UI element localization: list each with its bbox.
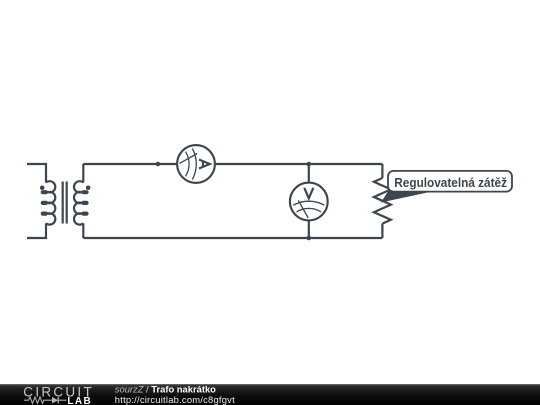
CircuitLab logo diode triangle [52, 397, 58, 404]
CircuitLab logo resistor-diode squiggle [24, 397, 67, 403]
transformer T1 primary winding [42, 181, 56, 224]
wire top-left primary stub [27, 164, 46, 183]
svg-text:http://circuitlab.com/c8gfgvt: http://circuitlab.com/c8gfgvt [115, 394, 235, 405]
transformer T1 core [63, 182, 67, 224]
svg-text:LAB: LAB [67, 396, 91, 405]
node junction dot (voltmeter top) [307, 162, 312, 167]
wire right vertical bottom [381, 224, 383, 238]
annotation bubble tail [381, 191, 429, 203]
wire top rail [83, 163, 382, 165]
transformer T1 secondary winding [74, 181, 88, 224]
svg-text:sourzZ / Trafo nakrátko: sourzZ / Trafo nakrátko [115, 383, 216, 394]
svg-text:Regulovatelná zátěž: Regulovatelná zátěž [394, 176, 507, 190]
transformer T1 primary phase dot [40, 186, 45, 191]
footer bar [0, 384, 540, 405]
transformer T1 secondary phase dot [86, 186, 91, 191]
wire secondary bottom lead [82, 223, 84, 238]
node junction dot (ammeter input) [156, 162, 161, 167]
ammeter AM1 [177, 145, 215, 183]
wire right vertical top [381, 164, 383, 178]
wire bottom rail [83, 237, 382, 239]
node junction dot (voltmeter bottom) [307, 236, 312, 241]
annotation bubble "Regulovatelná zátěž" [388, 171, 512, 192]
resistor R1 (load) zigzag [374, 178, 391, 224]
wire bottom-left primary stub [27, 223, 46, 238]
voltmeter VM1 [290, 183, 328, 221]
wire secondary top lead [82, 164, 84, 183]
wire voltmeter branch [308, 164, 310, 238]
